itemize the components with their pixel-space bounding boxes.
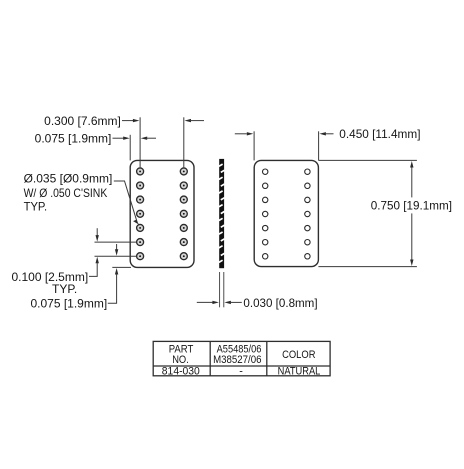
svg-text:-: - xyxy=(239,365,243,377)
dimension 0.750 line xyxy=(410,161,413,266)
dimension 0.300 line xyxy=(122,119,204,122)
part table xyxy=(153,341,330,375)
edge view strip xyxy=(219,159,225,268)
dimension 0.075 top line xyxy=(113,137,157,140)
row 6 extension line xyxy=(95,241,137,243)
svg-text:Ø.035 [Ø0.9mm]: Ø.035 [Ø0.9mm] xyxy=(24,172,113,186)
svg-text:NATURAL: NATURAL xyxy=(278,366,321,378)
svg-text:0.450 [11.4mm]: 0.450 [11.4mm] xyxy=(339,127,420,141)
svg-text:COLOR: COLOR xyxy=(282,349,316,361)
hole callout leader xyxy=(114,181,139,225)
extension line left edge of left view xyxy=(129,135,131,161)
dimension 0.450 arrows xyxy=(235,132,334,135)
svg-text:814-030: 814-030 xyxy=(162,366,200,378)
right view outline xyxy=(254,160,318,266)
bottom edge extension line xyxy=(112,266,131,268)
dimension 0.075 bottom arrows xyxy=(108,244,119,303)
strip extension lines xyxy=(219,272,221,307)
svg-text:TYP.: TYP. xyxy=(52,282,77,296)
right view holes xyxy=(263,169,311,259)
dimension 0.100 arrows xyxy=(89,228,99,276)
svg-text:0.750 [19.1mm]: 0.750 [19.1mm] xyxy=(371,199,452,213)
0.750 bottom extension line xyxy=(318,266,417,268)
0.750 top extension line xyxy=(318,159,417,161)
svg-text:0.030 [0.8mm]: 0.030 [0.8mm] xyxy=(243,296,317,310)
svg-text:M38527/06: M38527/06 xyxy=(213,354,261,366)
left view countersunk holes xyxy=(137,168,188,260)
row 7 extension line xyxy=(95,255,137,257)
svg-text:0.075 [1.9mm]: 0.075 [1.9mm] xyxy=(35,132,112,146)
svg-text:TYP.: TYP. xyxy=(24,200,47,214)
svg-text:0.300 [7.6mm]: 0.300 [7.6mm] xyxy=(44,114,121,128)
svg-text:0.075 [1.9mm]: 0.075 [1.9mm] xyxy=(30,297,107,311)
dimension 0.030 arrows xyxy=(197,301,242,304)
extension line right hole column xyxy=(183,117,185,167)
svg-text:NO.: NO. xyxy=(172,354,189,366)
svg-text:W/ Ø .050 C'SINK: W/ Ø .050 C'SINK xyxy=(24,187,108,200)
extension line right edge right view xyxy=(318,131,320,160)
extension line left hole column xyxy=(139,117,141,167)
left view outline xyxy=(130,160,194,267)
extension line left edge right view xyxy=(253,131,255,160)
